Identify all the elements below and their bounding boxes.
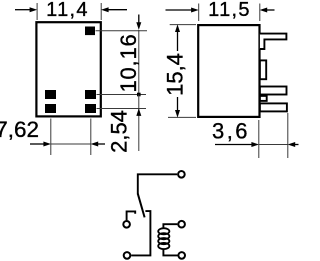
switch blade (moving contact): [138, 194, 145, 218]
terminal circle common (top right): [178, 171, 185, 178]
dimension 3,6 left arrow: [215, 142, 259, 147]
terminal circle NO (bottom left): [124, 252, 131, 259]
wire coil top: [163, 224, 177, 229]
dimension 15,4 top arrow (pointing up): [175, 24, 180, 51]
dimension 3,6 right extension line: [287, 113, 289, 158]
dimension 3,6 left extension line: [258, 120, 260, 158]
dimension 10,16 line: [138, 30, 140, 95]
dimension 11,4 left tick: [36, 3, 38, 20]
dimension 11,5 right arrow: [260, 8, 275, 13]
dimension 7,62 right arrow: [91, 142, 105, 147]
wire common: from terminal left then down: [138, 174, 177, 194]
dimension 15,4 bottom arrow (pointing down): [175, 97, 180, 118]
relay body outline (left view): [36, 22, 100, 116]
pin 5 bar: [260, 103, 287, 111]
pin pad bottom-left row1: [45, 90, 56, 99]
wire NC stub: [127, 211, 136, 220]
pin 1 (top bent pin): [260, 34, 287, 49]
wire NO contact + riser + bottom wire: [131, 211, 150, 255]
dimension 2,54 line: [138, 95, 140, 152]
pin 3 bar: [260, 87, 287, 95]
dimension 11,5 left arrow: [166, 8, 199, 13]
dimension 11,4 right tick: [100, 3, 102, 20]
dimension 7,62 right extension line: [90, 119, 92, 156]
coil K1 loops: [158, 228, 169, 249]
relay body outline (side view): [198, 25, 259, 117]
dimension 11,5 left tick: [198, 4, 200, 22]
wire coil bottom: [163, 248, 177, 255]
dimension 10,16 square terminator: [137, 93, 141, 97]
dimension 11,5 right tick: [259, 4, 261, 22]
svg-text:3,6: 3,6: [212, 118, 250, 143]
dimension 3,6 line between: [259, 144, 288, 146]
dimension 3,6 right arrow: [288, 142, 299, 147]
dimension 10,16 extension line (top pin): [96, 30, 148, 32]
pin 2 stub: [260, 60, 266, 79]
svg-text:11,5: 11,5: [208, 0, 251, 21]
dimension 7,62 left arrow: [30, 142, 51, 147]
terminal circle coil top: [178, 221, 185, 228]
pin pad bottom-right row1: [85, 90, 96, 99]
svg-text:15,4: 15,4: [163, 53, 188, 96]
dimension 11,4 left arrow: [15, 7, 37, 12]
pin pad bottom-left row2: [45, 104, 56, 113]
svg-text:11,4: 11,4: [46, 0, 89, 21]
svg-text:2,54: 2,54: [106, 110, 131, 153]
dimension 10,16 extension line (row1): [97, 94, 147, 96]
dimension 7,62 line between: [51, 143, 91, 145]
dimension 2,54 extension line (row2): [97, 108, 147, 110]
svg-text:10,16: 10,16: [116, 33, 141, 92]
dimension 10,16 arrow (top, pointing down): [136, 15, 141, 30]
dimension 11,4 right arrow: [101, 7, 127, 12]
pin pad bottom-right row2: [85, 104, 96, 113]
pin pad top-right (filled): [85, 27, 95, 36]
terminal circle coil bottom: [178, 252, 185, 259]
dimension 15,4 bottom extension line: [168, 116, 196, 118]
pin 4 stub: [260, 96, 267, 101]
svg-text:7,62: 7,62: [0, 117, 39, 142]
dimension 2,54 arrow (pointing up): [136, 108, 141, 116]
terminal circle NC (left): [123, 221, 130, 228]
dimension 15,4 top extension line: [170, 24, 196, 26]
dimension 7,62 left extension line: [50, 119, 52, 156]
